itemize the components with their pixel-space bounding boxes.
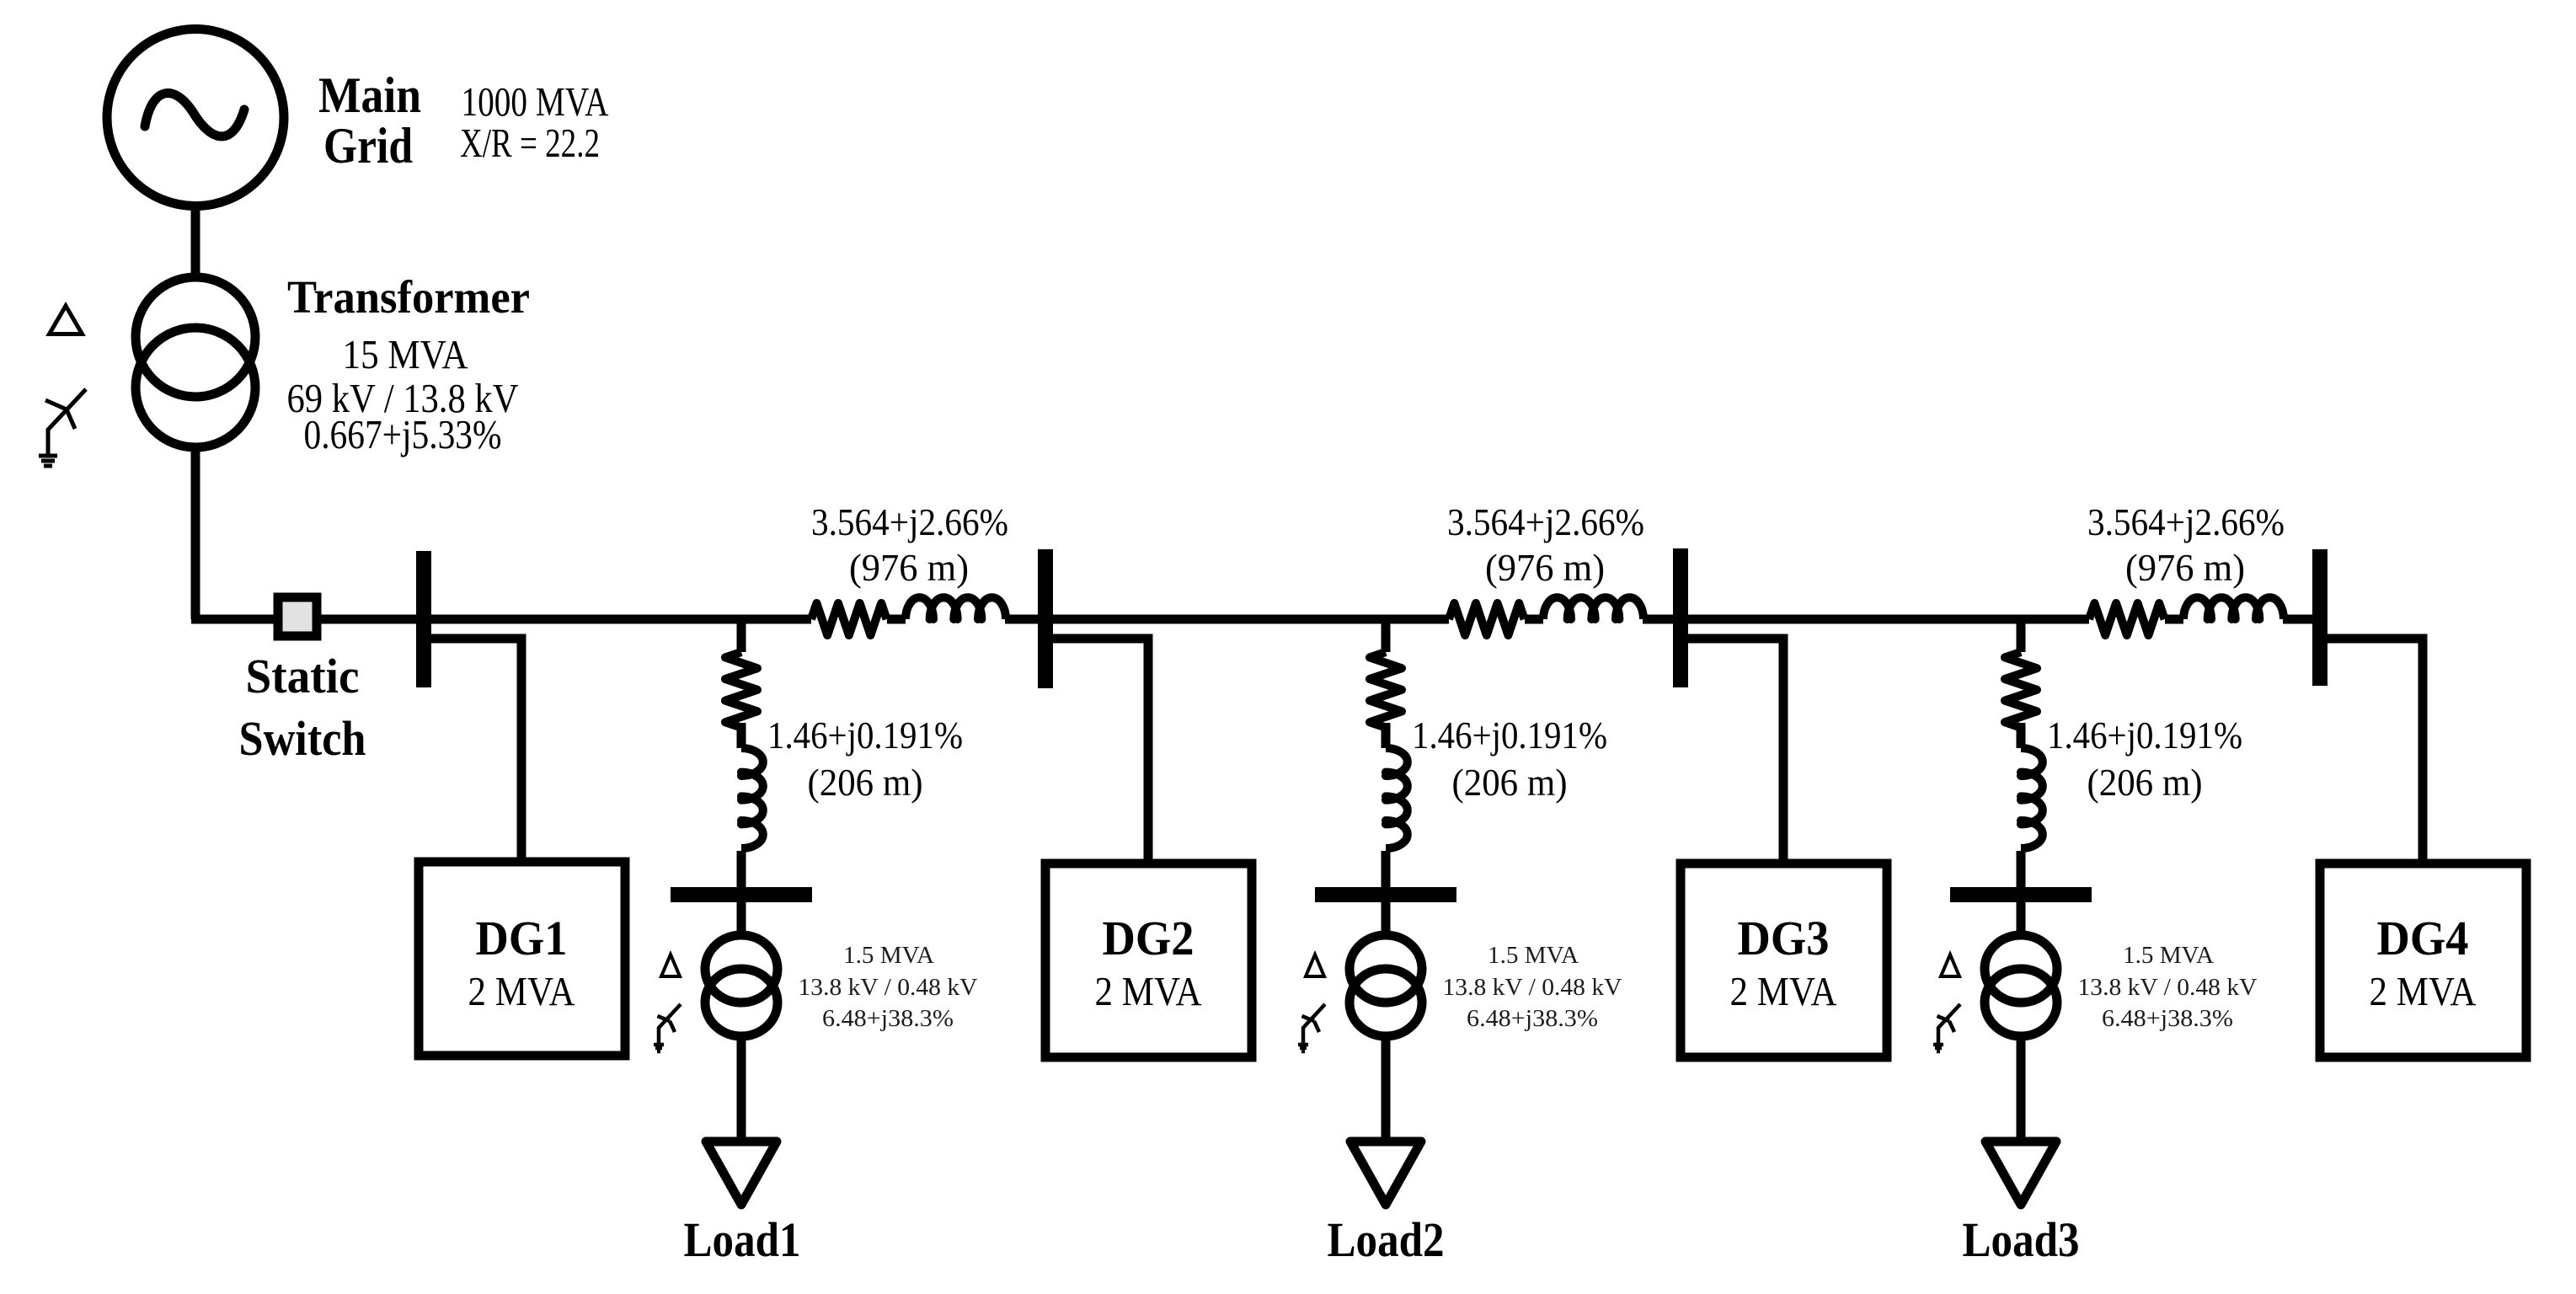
svg-text:DG2: DG2 [1103,911,1194,965]
svg-text:Switch: Switch [239,711,366,766]
svg-text:DG4: DG4 [2377,911,2469,965]
svg-text:DG3: DG3 [1738,911,1830,965]
svg-text:Main: Main [318,67,421,123]
svg-text:(976 m): (976 m) [849,546,969,589]
svg-text:Load2: Load2 [1328,1212,1445,1267]
svg-text:3.564+j2.66%: 3.564+j2.66% [1447,500,1644,543]
svg-text:Grid: Grid [323,118,413,174]
svg-text:2 MVA: 2 MVA [468,968,576,1014]
svg-text:0.667+j5.33%: 0.667+j5.33% [304,411,502,457]
svg-text:2 MVA: 2 MVA [1730,968,1838,1014]
svg-text:Load1: Load1 [684,1212,801,1267]
svg-text:3.564+j2.66%: 3.564+j2.66% [2087,500,2285,543]
svg-text:(976 m): (976 m) [1485,546,1605,589]
svg-text:3.564+j2.66%: 3.564+j2.66% [811,500,1008,543]
svg-text:(976 m): (976 m) [2125,546,2245,589]
svg-text:DG1: DG1 [476,911,568,965]
svg-text:1000 MVA: 1000 MVA [462,78,609,125]
svg-text:15 MVA: 15 MVA [343,331,469,377]
svg-text:Load3: Load3 [1963,1212,2080,1267]
svg-text:Transformer: Transformer [287,271,530,323]
svg-text:X/R = 22.2: X/R = 22.2 [460,120,600,166]
svg-text:2 MVA: 2 MVA [2370,968,2477,1014]
svg-text:2 MVA: 2 MVA [1095,968,1203,1014]
svg-text:Static: Static [246,649,360,703]
